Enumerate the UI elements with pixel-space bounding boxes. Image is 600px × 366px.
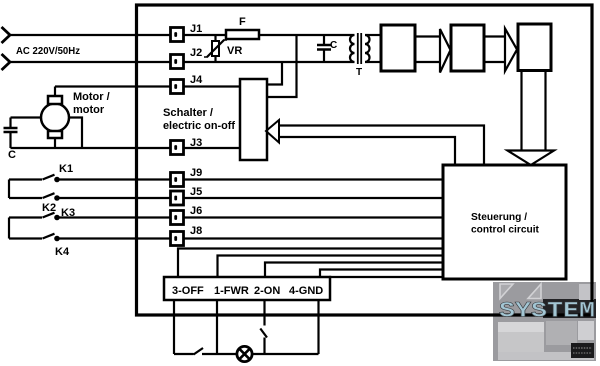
wire J8 to control xyxy=(183,237,443,239)
svg-text:J8: J8 xyxy=(190,225,202,237)
svg-text:K4: K4 xyxy=(55,246,70,258)
svg-text:motor: motor xyxy=(73,104,105,116)
arrow into switch xyxy=(266,120,279,143)
wire J1 to fuse xyxy=(183,34,226,36)
wire 3-OFF to control xyxy=(178,249,443,278)
wire K1-K2 link xyxy=(8,180,10,199)
switch S1 bottom xyxy=(194,348,204,355)
connector J9 xyxy=(171,173,184,187)
motor capacitor C xyxy=(11,116,42,118)
wire J5 to control xyxy=(183,197,443,199)
relay contact K1 xyxy=(9,178,42,180)
svg-text:4-GND: 4-GND xyxy=(289,285,323,297)
filter block U2 xyxy=(451,25,484,71)
wire control to switch lower xyxy=(279,137,455,165)
wire switch to L2 xyxy=(267,62,282,85)
connector J8 xyxy=(171,232,184,246)
svg-text:3-OFF: 3-OFF xyxy=(172,285,204,297)
AC input arrow 1 xyxy=(2,27,11,43)
wire terminal 2 down to switch xyxy=(263,300,265,326)
svg-text:SYSTEM: SYSTEM xyxy=(499,299,595,324)
svg-text:control circuit: control circuit xyxy=(471,225,540,236)
svg-text:J5: J5 xyxy=(190,186,202,198)
relay contact K2 xyxy=(9,197,42,199)
svg-text:AC 220V/50Hz: AC 220V/50Hz xyxy=(16,45,80,57)
connector J2 xyxy=(171,55,184,69)
svg-text:J9: J9 xyxy=(190,167,202,179)
block arrow 2 xyxy=(484,35,505,37)
svg-text:C: C xyxy=(8,149,16,161)
relay contact K3 xyxy=(9,216,42,218)
wire L2 input xyxy=(9,61,171,63)
svg-text:VR: VR xyxy=(227,45,242,57)
svg-text:K1: K1 xyxy=(59,163,73,175)
block arrow down to control xyxy=(520,71,522,151)
wire 2-ON to control xyxy=(265,263,443,278)
motor M xyxy=(41,104,69,132)
wire K3-K4 link xyxy=(8,218,10,239)
lamp xyxy=(237,346,252,361)
svg-text:J1: J1 xyxy=(190,23,202,35)
svg-text:Motor /: Motor / xyxy=(73,91,110,103)
wire terminal 1 down xyxy=(216,300,218,354)
rectifier block U1 xyxy=(381,25,415,71)
wire J3 line xyxy=(11,147,172,149)
svg-text:T: T xyxy=(356,67,362,78)
connector J6 xyxy=(171,211,184,225)
control circuit block xyxy=(443,165,566,279)
connector J5 xyxy=(171,191,184,205)
svg-text:J4: J4 xyxy=(190,74,203,86)
AC input arrow 2 xyxy=(2,54,11,70)
switch block (Schalter) xyxy=(240,79,267,160)
wire 1-FWR to control xyxy=(218,256,444,278)
svg-text:Steuerung /: Steuerung / xyxy=(471,212,527,223)
svg-text:F: F xyxy=(239,16,246,28)
motor right loop wire xyxy=(69,118,82,149)
wire secondary to rectifier xyxy=(369,34,382,36)
wire switch to L1 xyxy=(267,35,297,97)
svg-text:K3: K3 xyxy=(61,207,75,219)
svg-text:J6: J6 xyxy=(190,205,202,217)
svg-text:Schalter /: Schalter / xyxy=(163,107,213,119)
connector J3 xyxy=(171,141,184,155)
wire fuse to transformer xyxy=(259,34,351,36)
svg-text:1-FWR: 1-FWR xyxy=(214,285,249,297)
wire J4 line xyxy=(55,85,171,87)
wire J6 to control xyxy=(183,216,443,218)
fuse F xyxy=(226,30,259,39)
regulator block U3 xyxy=(518,24,551,71)
wire terminal box to control xyxy=(329,276,443,278)
svg-text:2-ON: 2-ON xyxy=(254,285,280,297)
bottom rail xyxy=(174,353,194,355)
wire J9 to control xyxy=(183,178,443,180)
relay contact K4 xyxy=(9,237,42,239)
watermark logo xyxy=(493,282,596,361)
connector J4 xyxy=(171,80,184,94)
varistor VR xyxy=(214,35,216,41)
main box right edge over watermark xyxy=(590,282,593,317)
transformer T xyxy=(350,35,355,62)
wire L1 input xyxy=(9,34,171,36)
main box bottom edge over watermark xyxy=(493,313,594,316)
svg-text:C: C xyxy=(330,40,337,51)
rail right of lamp xyxy=(252,353,319,355)
wire terminal 4 down xyxy=(317,300,319,354)
block arrow 1 xyxy=(415,35,440,37)
svg-text:J2: J2 xyxy=(190,47,202,59)
wire J2 to transformer xyxy=(183,61,351,63)
main enclosure box xyxy=(137,5,593,315)
wire control to switch upper xyxy=(279,126,484,166)
switch S2 vertical xyxy=(260,329,267,338)
mains capacitor C xyxy=(323,35,325,45)
wire 4-GND to control xyxy=(320,270,443,278)
connector J1 xyxy=(171,28,184,42)
wire terminal 3 down xyxy=(173,300,175,354)
svg-text:electric on-off: electric on-off xyxy=(163,120,235,132)
terminal box 3-OFF 1-FWR 2-ON 4-GND xyxy=(164,277,330,300)
